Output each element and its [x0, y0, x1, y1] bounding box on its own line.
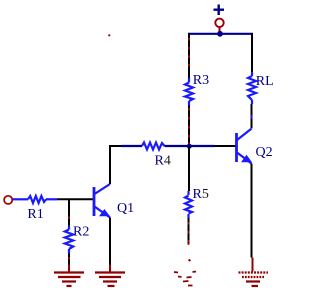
wire node to Q2 base black: [215, 145, 236, 147]
svg-text:R1: R1: [27, 207, 43, 222]
wire R5 upper: [188, 146, 190, 191]
supply + symbol: [214, 5, 225, 16]
wire right vertical upper: [251, 33, 253, 73]
svg-text:R5: R5: [193, 187, 209, 202]
stray red dot: [108, 34, 110, 36]
junction supply node: [217, 31, 223, 37]
wire left vertical lower: [188, 106, 190, 144]
node A junction dot: [187, 144, 192, 149]
resistor R1: [28, 196, 46, 203]
svg-text:Q2: Q2: [256, 145, 273, 160]
resistor RL: [248, 72, 256, 104]
Q1 emitter arrow: [99, 209, 110, 216]
svg-text:RL: RL: [256, 74, 274, 89]
transistor Q1: [94, 184, 110, 218]
wire R2 lower: [68, 254, 70, 265]
svg-text:Q1: Q1: [117, 201, 134, 216]
svg-text:R3: R3: [193, 73, 209, 88]
Q2 emitter arrow: [241, 155, 252, 163]
wire Q2 emitter vertical: [251, 164, 253, 258]
input terminal circle: [4, 196, 12, 204]
ground under Q1 emitter: [95, 265, 125, 287]
wire top rail: [188, 33, 253, 35]
wire R5 lower: [188, 218, 190, 245]
resistor R5: [185, 191, 192, 218]
wire Q1 emitter vertical: [109, 218, 111, 265]
wire R4 to node: [165, 145, 188, 147]
ground under Q2 emitter: [239, 273, 269, 287]
transistor Q2: [237, 129, 252, 164]
ground under R2: [54, 265, 84, 287]
wire input to R1: [13, 198, 28, 200]
wire left vertical upper: [188, 33, 190, 78]
resistor R3: [185, 78, 193, 106]
wire Q1 collector vertical: [109, 145, 111, 184]
ground (faded) under R5: [174, 260, 196, 286]
wire Q1 collector horizontal: [109, 145, 122, 147]
wire R1 right lead: [46, 198, 57, 200]
svg-text:R4: R4: [155, 154, 171, 169]
wire supply stub: [219, 27, 221, 33]
wire R4 left lead: [121, 145, 142, 147]
wire red tick marks: [69, 38, 252, 260]
wire R2 upper: [68, 199, 70, 226]
wire node to Q2 base blue: [191, 145, 215, 147]
wire R1 to Q1 base: [57, 198, 93, 200]
resistor R2: [65, 226, 73, 254]
wire Q2 emitter red stub: [252, 258, 254, 272]
wire RL to Q2 collector: [251, 104, 253, 115]
resistor R4: [142, 143, 165, 150]
svg-text:R2: R2: [73, 225, 89, 240]
supply terminal circle: [215, 19, 223, 27]
